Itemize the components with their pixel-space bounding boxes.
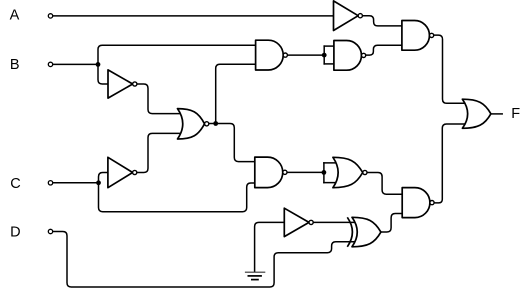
- wire B to U4 in1: [98, 45, 256, 64]
- node N2: [322, 53, 327, 58]
- wire U8 out to U9 in1: [363, 16, 402, 26]
- wire N2 tie vertical: [323, 46, 325, 64]
- wire C to U2 in: [99, 173, 108, 183]
- or U13: [462, 99, 491, 128]
- wire U7 out to U10 in1: [367, 173, 402, 195]
- wire N1 to U4 in2: [216, 64, 256, 123]
- inverter U1: [108, 70, 137, 98]
- wire U3 out to node N1: [209, 123, 216, 125]
- node N3: [322, 170, 327, 175]
- inverter U8: [334, 1, 363, 31]
- nor U7: [333, 157, 367, 187]
- wire U12 out to U10 in2: [381, 214, 402, 233]
- node N1: [213, 121, 218, 126]
- wire B to U1 in: [98, 64, 108, 84]
- svg-text:F: F: [511, 106, 520, 122]
- wire N2 to U6 in2: [324, 63, 334, 65]
- wire U6 out to U9 in2: [366, 45, 402, 55]
- ground: [245, 272, 265, 279]
- nor U3: [178, 109, 209, 139]
- svg-text:A: A: [10, 8, 20, 24]
- wire N3 tie vertical: [323, 163, 325, 183]
- nand U4: [256, 40, 288, 70]
- wire U5 out to node N3: [287, 171, 324, 173]
- A input wire: [53, 15, 334, 17]
- wire N3 to U7 in1: [324, 162, 339, 164]
- terminal B: [48, 62, 52, 66]
- wire N1 to U5 in1: [216, 124, 255, 162]
- wire N2 to U6 in1: [324, 45, 334, 47]
- node B junction: [96, 62, 101, 67]
- D input wire: [53, 232, 356, 288]
- inverter U11: [284, 208, 313, 236]
- wire U1 out to U3 in1: [137, 84, 184, 114]
- B input wire: [53, 63, 98, 65]
- terminal D: [48, 229, 52, 233]
- wire U4 out to node N2: [288, 54, 325, 56]
- wire U11 out to U12 in1: [313, 221, 356, 223]
- svg-text:C: C: [10, 176, 20, 192]
- xor U12: [347, 217, 381, 247]
- terminal A: [48, 14, 52, 18]
- inverter U2: [108, 157, 137, 187]
- svg-text:B: B: [10, 57, 20, 73]
- C input wire: [53, 182, 99, 184]
- svg-text:D: D: [10, 225, 20, 241]
- nand U6: [334, 41, 366, 71]
- terminal C: [48, 181, 52, 185]
- node C junction: [96, 180, 101, 185]
- wire U2 out to U3 in2: [137, 133, 184, 172]
- wire ground to U11 in: [255, 222, 285, 271]
- nand U10: [402, 188, 434, 218]
- wire U10 out to U13 in2: [435, 124, 470, 203]
- wire U9 out to U13 in1: [434, 35, 470, 103]
- F output wire: [491, 113, 502, 115]
- nand U9: [402, 21, 434, 51]
- nand U5: [255, 157, 287, 188]
- wire C to U5 in2: [99, 183, 255, 212]
- wire N3 to U7 in2: [324, 182, 339, 184]
